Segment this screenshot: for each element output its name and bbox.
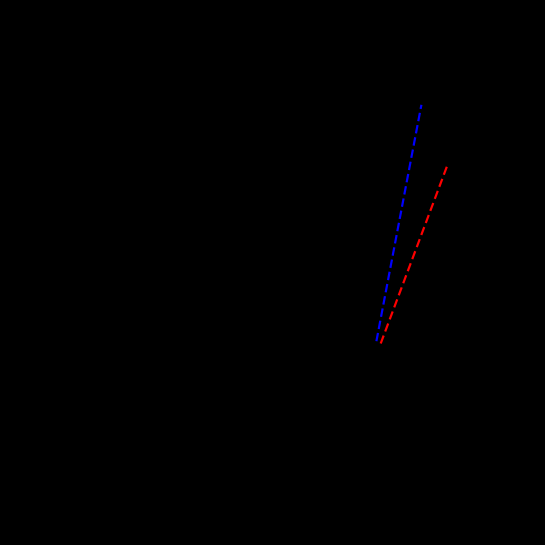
blue dashed fit line <box>376 105 421 341</box>
red dashed fit line <box>381 167 447 344</box>
